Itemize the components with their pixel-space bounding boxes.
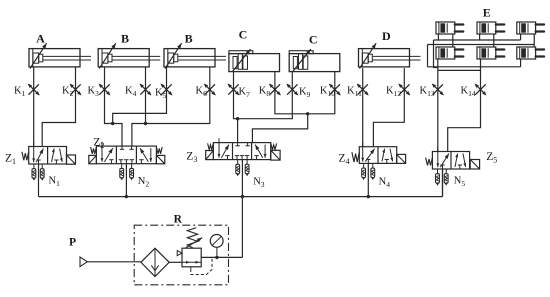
svg-text:A: A <box>36 32 45 46</box>
svg-text:E: E <box>483 6 491 20</box>
svg-text:D: D <box>382 29 391 43</box>
svg-text:R: R <box>174 214 183 226</box>
svg-text:C: C <box>309 33 318 47</box>
svg-text:B: B <box>185 32 193 46</box>
svg-text:C: C <box>239 28 248 42</box>
svg-text:B: B <box>121 32 129 46</box>
svg-text:P: P <box>69 237 76 249</box>
